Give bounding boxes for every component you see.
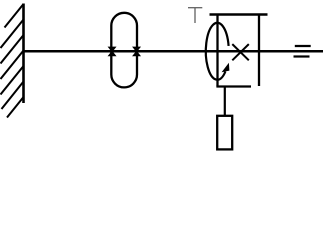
hatch 2 <box>1 20 24 49</box>
hatch 6 <box>2 82 24 110</box>
drum frame right vertical <box>258 15 260 87</box>
wall (fixed support) <box>22 4 25 104</box>
hatch 4 <box>1 51 24 80</box>
rotation arrow arc <box>206 23 229 80</box>
rotation arrowhead <box>222 63 230 73</box>
bearing upper line <box>295 45 311 47</box>
rigid joint mark right <box>133 47 140 56</box>
shaft (wire) <box>24 50 324 53</box>
label T <box>188 8 202 23</box>
hatch 7 <box>7 97 24 118</box>
hatch 5 <box>1 66 24 95</box>
bearing lower line <box>294 55 310 57</box>
drum frame left vertical <box>216 15 218 87</box>
cord <box>224 87 226 117</box>
coupling (capsule) <box>111 13 137 88</box>
crank cross <box>232 44 249 60</box>
hatch 3 <box>1 35 24 64</box>
hatch 1 <box>5 4 24 28</box>
rigid joint mark left <box>109 47 116 56</box>
drum frame top line <box>210 13 268 15</box>
weight <box>217 116 232 150</box>
drum frame bottom line <box>216 85 251 87</box>
